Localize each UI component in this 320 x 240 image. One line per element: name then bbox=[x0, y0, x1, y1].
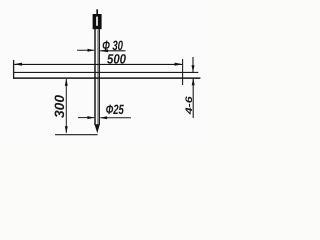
dimension arrow phi30 left bbox=[77, 49, 94, 51]
arrow 300 bottom bbox=[65, 126, 68, 133]
collar slot (white) bbox=[96, 17, 98, 26]
bottom extension line at rod tip level bbox=[55, 134, 98, 136]
horizontal bar bottom line bbox=[13, 77, 200, 79]
dimension line 300 bbox=[65, 79, 67, 133]
arrow 300 top bbox=[65, 79, 68, 86]
horizontal bar top line bbox=[13, 71, 198, 73]
dimension 4-6 lower line bbox=[192, 78, 194, 118]
svg-text:4-6: 4-6 bbox=[184, 95, 195, 115]
collar (black head at top of rod) bbox=[93, 14, 102, 29]
arrow right of 500 bbox=[175, 63, 183, 66]
rod center axis bbox=[96, 30, 98, 127]
dimension arrow phi25 left bbox=[78, 117, 94, 119]
rod left side line bbox=[94, 29, 96, 125]
dimension 4-6 upper line bbox=[192, 57, 194, 72]
arrow 4-6 up bbox=[192, 78, 195, 85]
svg-text:Ф 30: Ф 30 bbox=[102, 38, 123, 53]
dimension arrow phi30 right bbox=[100, 50, 125, 52]
rod right side line bbox=[98, 29, 100, 125]
rod top stub bbox=[96, 9, 98, 14]
svg-text:500: 500 bbox=[107, 51, 126, 66]
arrow 4-6 down bbox=[192, 65, 195, 72]
svg-text:Ф25: Ф25 bbox=[106, 102, 124, 117]
arrow left of 500 bbox=[14, 63, 22, 66]
bar left end cap / extension line bbox=[13, 60, 15, 79]
rod pointed tip bbox=[95, 124, 100, 133]
svg-text:300: 300 bbox=[52, 95, 67, 118]
extension line right of 500 bbox=[182, 59, 184, 85]
dimension arrow phi25 right bbox=[100, 117, 131, 119]
dimension line 500 bbox=[14, 63, 182, 65]
